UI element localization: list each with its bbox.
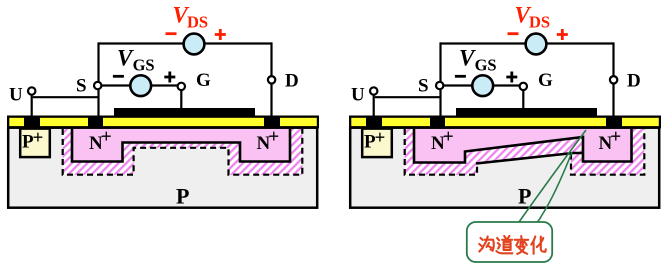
svg-text:DS: DS [529,12,550,31]
svg-text:DS: DS [187,12,208,31]
svg-text:G: G [196,70,211,91]
svg-text:D: D [285,71,299,92]
svg-text:V: V [117,46,134,71]
svg-text:U: U [351,85,365,106]
svg-text:S: S [418,76,429,97]
svg-text:P: P [518,184,531,209]
svg-text:+: + [375,128,386,149]
svg-text:GS: GS [133,56,155,75]
svg-text:+: + [610,126,621,147]
svg-text:+: + [268,126,279,147]
svg-text:D: D [627,71,641,92]
svg-text:V: V [459,46,476,71]
svg-text:U: U [9,85,23,106]
svg-text:+: + [33,128,44,149]
svg-text:S: S [76,76,87,97]
svg-text:GS: GS [475,56,497,75]
svg-text:+: + [101,126,112,147]
svg-text:G: G [538,70,553,91]
svg-text:+: + [443,126,454,147]
svg-text:P: P [176,184,189,209]
